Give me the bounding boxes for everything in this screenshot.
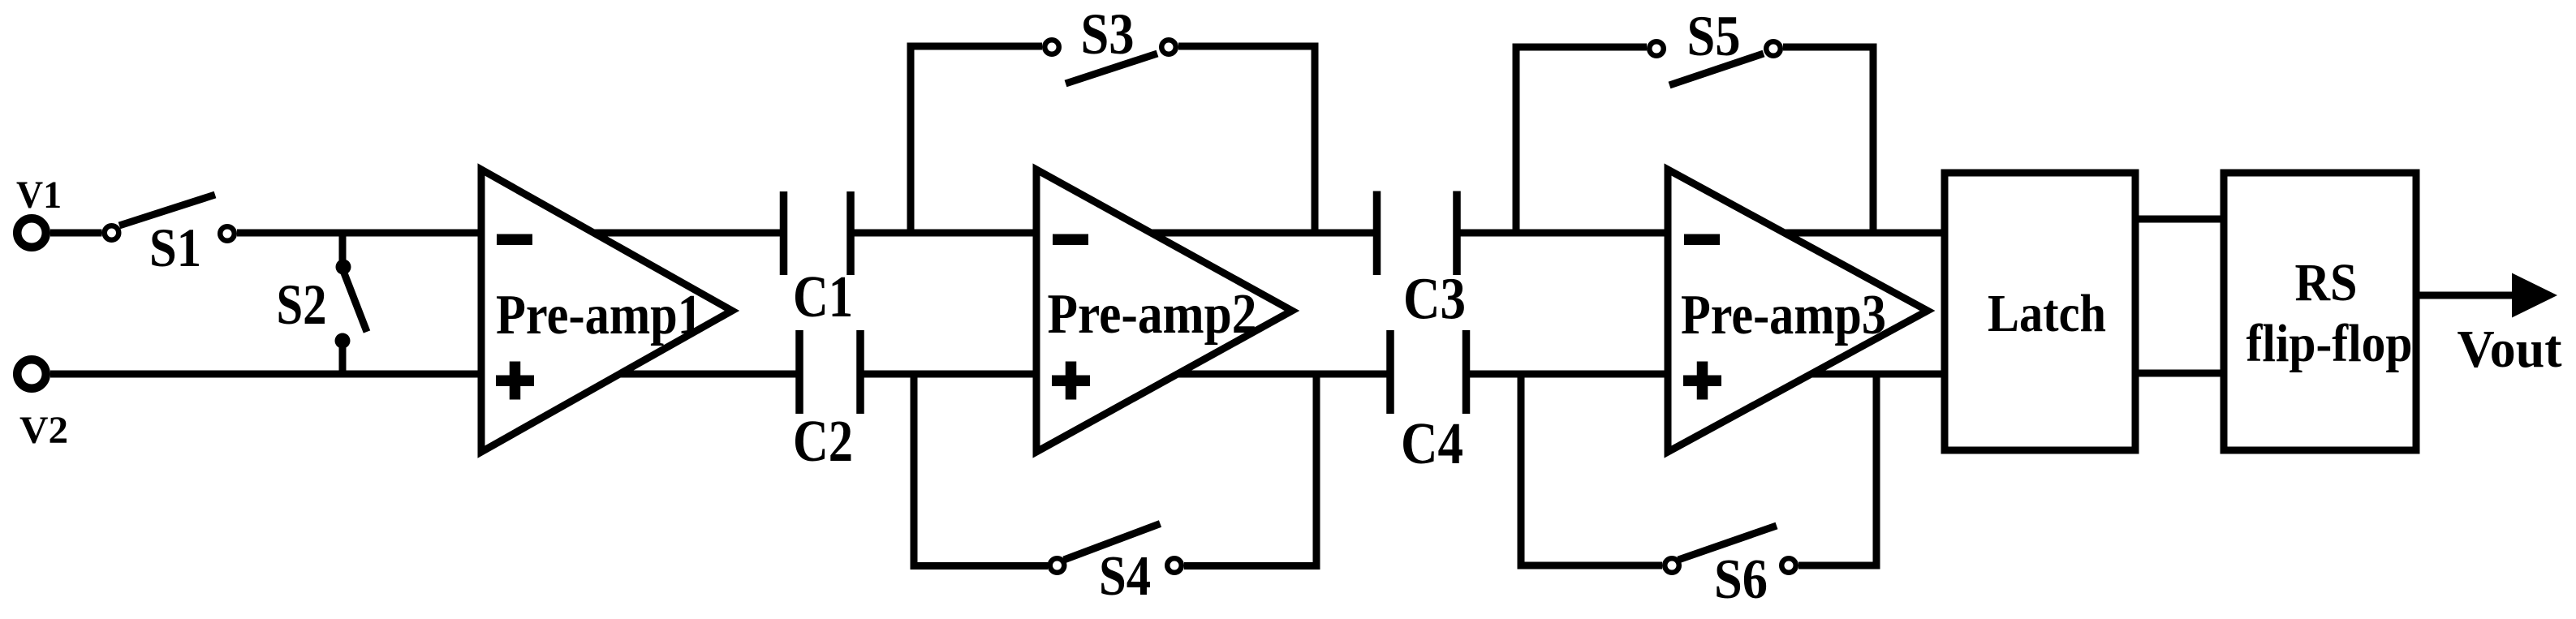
svg-text:C4: C4	[1401, 411, 1463, 476]
svg-text:Pre-amp1: Pre-amp1	[496, 284, 702, 346]
svg-text:Vout: Vout	[2458, 320, 2562, 379]
svg-text:S6: S6	[1714, 548, 1768, 611]
svg-text:flip-flop: flip-flop	[2246, 314, 2413, 373]
svg-text:Pre-amp2: Pre-amp2	[1048, 283, 1257, 346]
svg-text:RS: RS	[2295, 253, 2358, 312]
svg-text:S5: S5	[1687, 5, 1741, 68]
svg-text:C2: C2	[793, 408, 853, 474]
svg-text:Latch: Latch	[1988, 284, 2106, 343]
svg-text:V2: V2	[19, 409, 68, 452]
svg-text:V1: V1	[16, 174, 62, 217]
svg-text:S4: S4	[1099, 545, 1151, 608]
svg-text:S2: S2	[277, 273, 327, 337]
svg-text:S1: S1	[149, 217, 201, 278]
svg-text:Pre-amp3: Pre-amp3	[1681, 284, 1886, 346]
svg-text:C3: C3	[1403, 266, 1466, 332]
svg-text:S3: S3	[1081, 2, 1135, 67]
svg-text:C1: C1	[793, 264, 853, 329]
